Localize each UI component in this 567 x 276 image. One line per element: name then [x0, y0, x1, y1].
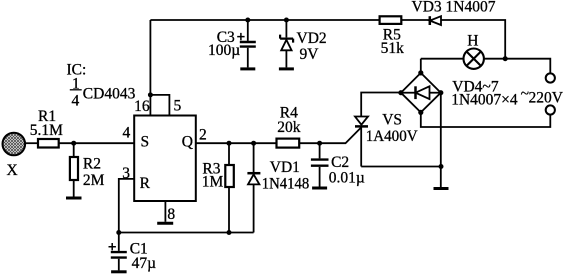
ground C1	[111, 270, 127, 273]
node R3 bottom	[227, 230, 232, 235]
node VD2 top	[284, 18, 289, 23]
wire lower terminal to bridge	[421, 112, 551, 127]
wire supply riser pin16	[149, 20, 151, 116]
wire R2 top	[73, 143, 75, 157]
resistor R4	[277, 139, 300, 148]
node VD1 top	[251, 141, 256, 146]
op IC U1 box CD4043	[134, 116, 196, 202]
zener VD2	[280, 35, 293, 51]
capacitor C1	[111, 252, 127, 258]
svg-text:1M: 1M	[202, 173, 224, 190]
svg-text:S: S	[141, 134, 150, 151]
resistor R2	[70, 157, 78, 180]
resistor R1	[38, 139, 59, 148]
wire pin3 R	[119, 179, 134, 233]
node bridge top	[418, 70, 423, 75]
node C2 top	[317, 141, 322, 146]
wire VD2 bottom	[285, 50, 287, 67]
wire C1 bottom	[118, 259, 120, 271]
node VS ground	[439, 164, 444, 169]
svg-text:4: 4	[123, 125, 131, 142]
wire R3 bottom	[228, 187, 230, 233]
wire bridge minus drop	[440, 93, 442, 187]
terminal upper	[546, 73, 555, 82]
wire C3 bottom	[247, 48, 249, 68]
svg-text:5: 5	[174, 98, 182, 115]
svg-text:H: H	[467, 33, 478, 50]
svg-text:16: 16	[134, 98, 150, 115]
thyristor VS	[355, 117, 368, 127]
wire top rail right segment	[441, 20, 505, 59]
wire VS to ground node	[361, 166, 441, 168]
wire bottom bus	[119, 232, 254, 234]
electrode X	[3, 133, 26, 156]
wire R4 to gate	[299, 127, 361, 143]
node bridge left	[398, 90, 403, 95]
svg-text:0.01µ: 0.01µ	[329, 169, 365, 186]
wire pin8 ground	[164, 201, 166, 222]
node C1 top	[116, 230, 121, 235]
svg-text:2M: 2M	[83, 172, 105, 189]
wire X to R1	[25, 142, 38, 144]
svg-text:1A400V: 1A400V	[366, 128, 419, 145]
svg-text:5.1M: 5.1M	[30, 122, 63, 139]
wire VD1 bottom	[253, 184, 255, 232]
node bridge right	[438, 90, 443, 95]
svg-text:R2: R2	[83, 156, 101, 173]
wire VD2 top	[285, 20, 287, 37]
ground C2	[312, 187, 327, 190]
ground VS node	[434, 187, 449, 190]
svg-text:Q: Q	[182, 134, 193, 151]
svg-text:220V: 220V	[529, 90, 564, 107]
svg-text:47µ: 47µ	[132, 255, 157, 272]
wire R3 top	[228, 143, 230, 165]
node bridge bottom	[418, 110, 423, 115]
node R3 top	[227, 141, 232, 146]
svg-text:3: 3	[122, 165, 130, 182]
svg-text:VD3 1N4007: VD3 1N4007	[412, 0, 496, 16]
diode VD1 1N4148	[247, 173, 260, 184]
lamp H	[464, 49, 484, 69]
wire C2 top	[319, 143, 321, 158]
wire R1 to IC pin4	[59, 142, 135, 144]
resistor R5	[380, 16, 402, 24]
wire pin5 loop	[150, 95, 169, 116]
svg-text:CD4043: CD4043	[83, 86, 136, 103]
wire VD1 top	[253, 143, 255, 172]
wire lamp right	[484, 59, 550, 74]
svg-text:8: 8	[167, 206, 175, 223]
node pin16 junction	[148, 92, 153, 97]
svg-text:20k: 20k	[277, 119, 301, 136]
node C3 top	[245, 18, 250, 23]
wire R2 bottom	[73, 180, 75, 197]
svg-text:VD2: VD2	[297, 30, 327, 47]
svg-text:51k: 51k	[381, 40, 405, 57]
svg-text:4: 4	[72, 93, 80, 110]
bridge rectifier VD4~7	[401, 73, 441, 113]
wire top rail left segment	[150, 19, 379, 21]
wire lamp left	[421, 58, 464, 60]
capacitor C2	[311, 160, 329, 166]
svg-text:9V: 9V	[300, 46, 320, 63]
svg-text:VS: VS	[382, 112, 402, 129]
capacitor C3	[240, 42, 256, 47]
wire Q output	[196, 142, 277, 144]
ground VD2	[279, 67, 294, 70]
wire C3 top	[247, 20, 249, 41]
wire VS anode from bridge	[361, 93, 401, 117]
wire C1 top	[118, 233, 120, 251]
ground R2	[66, 197, 82, 200]
resistor R3	[225, 165, 234, 187]
svg-text:R: R	[140, 175, 151, 192]
svg-text:1N4148: 1N4148	[262, 175, 310, 192]
node R2 top	[71, 141, 76, 146]
svg-text:100µ: 100µ	[208, 42, 240, 59]
diode VD3 1N4007	[430, 16, 441, 25]
svg-text:VD1: VD1	[270, 159, 300, 176]
svg-text:X: X	[7, 162, 18, 179]
wire VS cathode down	[360, 127, 362, 166]
wire C2 bottom	[319, 167, 321, 187]
svg-text:1N4007×4: 1N4007×4	[451, 92, 518, 109]
wire bridge top riser	[420, 59, 422, 73]
ground pin8	[157, 222, 173, 225]
svg-text:2: 2	[199, 127, 207, 144]
wire top rail mid segment	[401, 19, 430, 21]
capacitor C1 plus	[109, 243, 116, 250]
capacitor C3 plus	[237, 33, 244, 40]
node lamp tap	[503, 56, 508, 61]
terminal lower	[546, 105, 555, 114]
ground C3	[240, 67, 255, 70]
